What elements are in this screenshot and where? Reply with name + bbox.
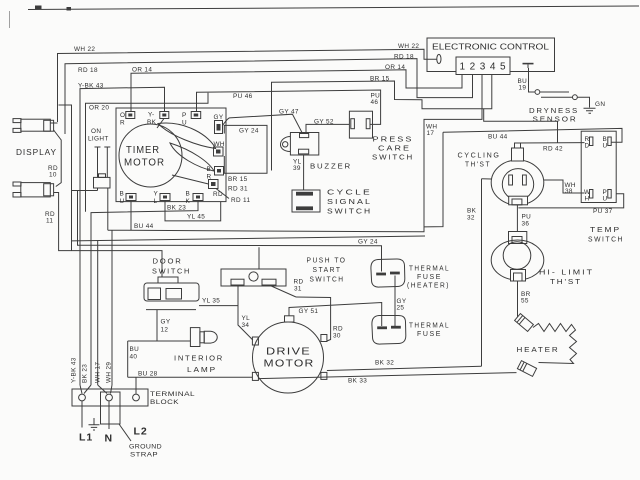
ground strap leader	[119, 424, 131, 441]
svg-text:RD: RD	[333, 326, 343, 333]
heater terminal 1	[515, 314, 534, 332]
press care switch	[349, 111, 372, 138]
svg-text:BU 28: BU 28	[138, 371, 158, 378]
wire GY 25	[394, 276, 396, 327]
corner mark 2	[67, 7, 72, 11]
svg-text:WH 22: WH 22	[398, 43, 419, 50]
svg-text:YL 45: YL 45	[187, 214, 205, 221]
svg-text:SWITCH: SWITCH	[152, 267, 191, 276]
pin 4 branch to RD 42	[484, 109, 558, 143]
svg-text:BU 44: BU 44	[488, 134, 508, 141]
wire N	[108, 401, 110, 429]
corner mark	[35, 6, 42, 10]
converging wires into block	[80, 385, 112, 394]
wire WH 29 vertical to block	[111, 230, 113, 385]
svg-text:R: R	[120, 120, 125, 127]
svg-text:RD: RD	[294, 279, 304, 286]
svg-text:55: 55	[521, 298, 529, 305]
wire YL 45	[165, 201, 221, 221]
wire YL 35	[199, 305, 238, 307]
svg-text:ON: ON	[91, 128, 101, 135]
wire PU 36	[516, 205, 518, 232]
svg-text:BK 23: BK 23	[82, 364, 89, 383]
svg-text:GY: GY	[161, 319, 171, 326]
svg-text:L2: L2	[134, 426, 148, 438]
svg-text:STRAP: STRAP	[130, 452, 158, 459]
svg-text:BR 15: BR 15	[228, 176, 248, 183]
wire BU 44 left	[130, 201, 132, 231]
wire PU 46	[197, 90, 381, 124]
wire RD 42	[518, 142, 585, 144]
svg-text:YL 35: YL 35	[202, 298, 220, 305]
svg-text:D: D	[585, 143, 590, 150]
wire BU 44 right to temp switch	[443, 128, 622, 142]
svg-text:Y-BK 43: Y-BK 43	[78, 83, 104, 90]
svg-text:SWITCH: SWITCH	[310, 275, 345, 284]
push to start switch box	[221, 269, 286, 286]
wire WH 38	[544, 180, 585, 193]
svg-text:INTERIOR: INTERIOR	[174, 354, 224, 363]
svg-text:MOTOR: MOTOR	[124, 158, 165, 169]
timer inner box	[116, 108, 226, 202]
heater element zigzag	[533, 324, 577, 364]
svg-text:39: 39	[293, 165, 301, 172]
svg-text:CYCLE: CYCLE	[327, 188, 372, 197]
svg-text:31: 31	[294, 286, 302, 293]
svg-text:P: P	[182, 112, 187, 119]
pin 3 wire to WH 17	[424, 75, 482, 227]
buzzer	[290, 133, 318, 156]
wire GY 52	[306, 124, 349, 133]
svg-text:PU 37: PU 37	[593, 208, 613, 215]
terminal C / RD	[209, 180, 219, 189]
svg-text:YL: YL	[242, 315, 251, 322]
svg-text:BLOCK: BLOCK	[150, 399, 179, 406]
dryness sensor contact	[535, 90, 540, 95]
svg-text:Y: Y	[154, 191, 159, 198]
connector 1 2 3 4 5	[456, 57, 510, 75]
svg-text:RD 31: RD 31	[228, 186, 248, 193]
svg-text:WH 17: WH 17	[95, 362, 102, 383]
wire BK 32	[327, 366, 482, 370]
svg-text:17: 17	[427, 130, 435, 137]
svg-text:BUZZER: BUZZER	[310, 162, 352, 171]
svg-text:RD: RD	[213, 191, 223, 198]
wire GY 51	[289, 303, 382, 327]
svg-text:N: N	[105, 433, 113, 445]
wire RD 30	[296, 297, 331, 341]
svg-text:BK 33: BK 33	[348, 378, 367, 385]
svg-text:BK: BK	[147, 119, 157, 126]
svg-text:DRIVE: DRIVE	[266, 347, 311, 358]
svg-text:L: L	[154, 198, 158, 205]
wire L2 vertical	[135, 377, 137, 394]
svg-text:WH 29: WH 29	[106, 362, 113, 383]
wire BK 33	[258, 373, 516, 379]
svg-text:O: O	[120, 112, 125, 119]
long wire to GY24 junction	[72, 236, 426, 241]
svg-text:40: 40	[130, 354, 138, 361]
timer assembly outer box	[86, 93, 209, 212]
svg-text:CYCLING: CYCLING	[458, 151, 501, 160]
wire BU 28	[128, 376, 253, 378]
wire RD 18	[65, 59, 473, 134]
wire GY 12	[156, 310, 158, 341]
wire RD 10 between connectors	[54, 130, 62, 187]
svg-text:12: 12	[161, 327, 169, 334]
svg-text:GY: GY	[214, 114, 224, 121]
drive motor	[253, 322, 324, 393]
GY 24 box	[224, 125, 267, 173]
display connector lower	[21, 183, 51, 197]
svg-text:MOTOR: MOTOR	[264, 359, 315, 370]
wire from BK32 vertical to cycling left	[482, 178, 492, 180]
svg-text:START: START	[313, 265, 342, 274]
svg-text:DISPLAY: DISPLAY	[16, 148, 57, 157]
wire YL 39	[303, 155, 305, 190]
svg-text:TEMP: TEMP	[590, 225, 621, 234]
interior lamp	[128, 340, 191, 342]
wire WH 17 vertical to block	[97, 241, 99, 385]
svg-text:BK: BK	[467, 208, 477, 215]
svg-text:SENSOR: SENSOR	[533, 115, 578, 124]
wire WH 22	[58, 49, 437, 122]
svg-text:GROUND: GROUND	[129, 444, 162, 451]
wire YL 34	[238, 286, 253, 340]
svg-text:L1: L1	[79, 432, 93, 444]
svg-text:OR 14: OR 14	[132, 67, 152, 74]
svg-text:19: 19	[519, 85, 527, 92]
on light wires down	[97, 188, 99, 191]
wire GY 47	[223, 114, 303, 133]
thermal fuse	[372, 315, 406, 344]
wire L1	[81, 401, 83, 428]
wire BK 32 vertical	[481, 179, 483, 367]
svg-text:46: 46	[371, 99, 379, 106]
wire Y-BK 43	[80, 87, 165, 385]
ground	[584, 108, 596, 113]
timer motor circle	[119, 124, 182, 187]
thermal fuse (heater)	[371, 259, 405, 287]
svg-text:K: K	[186, 198, 191, 205]
svg-text:B: B	[207, 166, 212, 173]
wire BR 15	[272, 75, 492, 171]
RD 11 leader	[216, 189, 229, 199]
svg-text:PUSH TO: PUSH TO	[307, 256, 347, 265]
svg-text:36: 36	[522, 221, 530, 228]
svg-text:TH'ST: TH'ST	[550, 277, 582, 286]
svg-text:LIGHT: LIGHT	[88, 136, 109, 143]
svg-text:U: U	[182, 120, 187, 127]
svg-text:FUSE: FUSE	[417, 329, 442, 338]
temp switch box	[581, 131, 616, 202]
svg-text:GY 24: GY 24	[358, 239, 378, 246]
svg-text:30: 30	[333, 333, 341, 340]
WH22 hook terminal	[437, 54, 441, 63]
svg-text:ELECTRONIC CONTROL: ELECTRONIC CONTROL	[432, 42, 549, 52]
svg-text:Y-: Y-	[148, 112, 155, 119]
svg-text:CARE: CARE	[378, 144, 411, 153]
svg-text:RD 11: RD 11	[231, 197, 250, 204]
wire OR 14	[131, 70, 462, 112]
cycle signal switch	[292, 190, 320, 212]
wire BR 55	[517, 281, 519, 317]
svg-text:(HEATER): (HEATER)	[407, 281, 450, 290]
svg-text:PU: PU	[522, 214, 532, 221]
svg-text:H: H	[585, 196, 590, 203]
svg-text:U: U	[603, 143, 608, 150]
svg-text:B: B	[120, 191, 125, 198]
wire PU 37	[518, 194, 623, 208]
hi-limit thermostat	[509, 232, 527, 244]
cam follower arms	[158, 123, 216, 148]
svg-text:SWITCH: SWITCH	[588, 235, 624, 244]
svg-text:BU 44: BU 44	[134, 223, 154, 230]
svg-text:GY 47: GY 47	[279, 109, 299, 116]
BU 19 terminal	[523, 63, 534, 65]
svg-text:BR 15: BR 15	[370, 76, 390, 83]
terminal block	[72, 389, 148, 406]
svg-text:U: U	[603, 196, 608, 203]
svg-text:25: 25	[397, 305, 405, 312]
svg-text:OR 14: OR 14	[385, 64, 405, 71]
svg-text:U: U	[120, 198, 125, 205]
svg-text:BK 23: BK 23	[167, 205, 186, 212]
svg-text:RD 18: RD 18	[78, 67, 98, 74]
svg-text:GY 24: GY 24	[239, 128, 259, 135]
svg-text:SWITCH: SWITCH	[372, 153, 414, 162]
wire RD 31 leader	[269, 285, 296, 297]
svg-text:GY 51: GY 51	[299, 308, 319, 315]
svg-text:BK 32: BK 32	[375, 360, 394, 367]
svg-text:Y-BK 43: Y-BK 43	[71, 357, 78, 383]
svg-text:PRESS: PRESS	[373, 135, 414, 144]
svg-text:WH 22: WH 22	[74, 46, 95, 53]
svg-text:GY 52: GY 52	[314, 119, 334, 126]
ground symbol	[89, 418, 100, 430]
svg-text:DOOR: DOOR	[153, 257, 183, 266]
cycling thermostat	[491, 160, 544, 205]
svg-text:11: 11	[46, 218, 53, 225]
svg-text:HI- LIMIT: HI- LIMIT	[539, 268, 594, 277]
svg-text:TH'ST: TH'ST	[465, 160, 491, 169]
svg-text:B: B	[186, 191, 191, 198]
svg-text:34: 34	[242, 322, 250, 329]
svg-text:SWITCH: SWITCH	[327, 207, 372, 216]
svg-text:38: 38	[565, 188, 573, 195]
ground strap	[101, 392, 121, 424]
wire BK 23	[91, 201, 198, 386]
svg-text:TIMER: TIMER	[126, 145, 160, 156]
page border top	[28, 6, 639, 10]
svg-text:10: 10	[49, 172, 57, 179]
svg-text:HEATER: HEATER	[517, 345, 560, 354]
svg-text:LAMP: LAMP	[187, 365, 217, 374]
electronic control box	[427, 38, 555, 72]
display connector upper	[21, 119, 51, 131]
wire BU 40	[127, 341, 129, 377]
svg-text:RD 42: RD 42	[543, 146, 563, 153]
svg-text:PU 46: PU 46	[233, 93, 253, 100]
svg-text:SIGNAL: SIGNAL	[327, 197, 372, 206]
svg-text:OR 20: OR 20	[89, 105, 109, 112]
svg-text:RD 18: RD 18	[394, 54, 414, 61]
svg-text:GN: GN	[595, 101, 605, 108]
wire RD 11 display to door switch	[54, 193, 162, 278]
svg-text:BU: BU	[130, 346, 140, 353]
heater terminal 2	[517, 361, 536, 377]
svg-text:TERMINAL: TERMINAL	[150, 391, 195, 398]
svg-text:32: 32	[467, 215, 475, 222]
